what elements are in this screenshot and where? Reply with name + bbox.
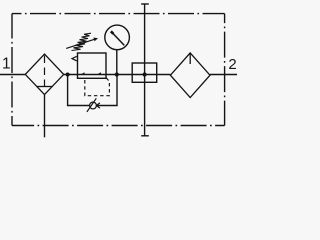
svg-text:2: 2 [228, 56, 236, 73]
svg-text:1: 1 [2, 56, 11, 73]
